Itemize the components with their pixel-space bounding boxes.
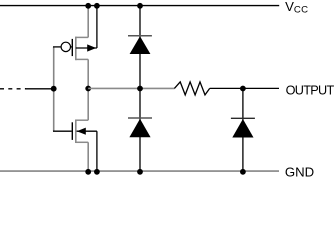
node: Q2 bulk at GND [94, 169, 100, 175]
node: drain output junction [85, 86, 91, 92]
wire: gate lead to Q2 [53, 130, 72, 132]
node: Q1 source at VCC [85, 3, 91, 9]
wire: output line to resistor [88, 87, 174, 89]
node: D3 branch at GND [240, 169, 246, 175]
svg-text:OUTPUT: OUTPUT [286, 84, 335, 98]
node: clamp branch at output line [137, 86, 143, 92]
wire: resistor to OUTPUT terminal [210, 87, 279, 89]
wire: VCC top rail [0, 5, 279, 7]
wire: output clamp diode branch [242, 88, 244, 171]
wire: gate bus vertical [53, 47, 55, 131]
wire: input lead solid [25, 88, 54, 90]
wire: drain node vertical [87, 59, 89, 120]
diode D2 clamp to GND [128, 118, 152, 137]
transistor Q1 PMOS [61, 37, 97, 61]
node: clamp branch at GND [137, 169, 143, 175]
wire: Q2 source to GND [87, 142, 89, 171]
node: Q2 source at GND [85, 169, 91, 175]
node: D3 branch at output line [240, 86, 246, 92]
diode D3 output clamp to GND [231, 118, 255, 137]
node: Q1 bulk at VCC [94, 3, 100, 9]
wire: GND bottom rail [0, 170, 279, 172]
resistor R output series [174, 82, 209, 95]
wire: clamp diode branch vertical [139, 6, 141, 172]
wire: Q2 bulk to GND [96, 131, 98, 171]
wire: Q1 source to VCC [87, 6, 89, 38]
svg-text:GND: GND [285, 164, 314, 177]
wire: gate lead to Q1 [53, 46, 61, 48]
node: clamp branch at VCC [137, 3, 143, 9]
diode D1 clamp to VCC [128, 36, 152, 54]
node: gate junction [51, 86, 57, 92]
wire: Q1 bulk to VCC [96, 6, 98, 48]
wire: input lead dashed [0, 88, 26, 90]
transistor Q2 NMOS [72, 120, 97, 144]
svg-text:VCC: VCC [285, 0, 308, 16]
